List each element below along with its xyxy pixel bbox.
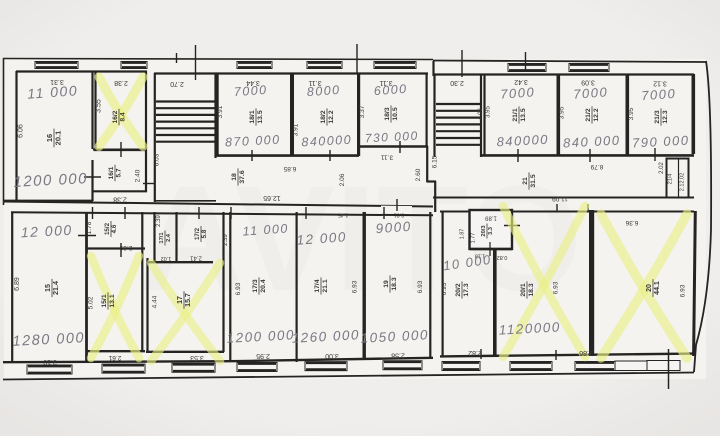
svg-text:3.55: 3.55 xyxy=(96,99,103,113)
svg-text:3.3: 3.3 xyxy=(488,226,494,235)
svg-text:4.06: 4.06 xyxy=(478,108,484,120)
svg-text:4.44: 4.44 xyxy=(152,295,159,308)
svg-text:20.1: 20.1 xyxy=(54,131,63,146)
svg-text:18/2: 18/2 xyxy=(320,110,327,123)
svg-text:6.89: 6.89 xyxy=(14,277,21,291)
svg-text:10.5: 10.5 xyxy=(392,107,399,120)
svg-text:21.1: 21.1 xyxy=(322,279,329,292)
svg-text:840 000: 840 000 xyxy=(563,133,621,151)
svg-text:9000: 9000 xyxy=(375,219,412,236)
svg-text:18.3: 18.3 xyxy=(391,277,398,290)
svg-text:6.36: 6.36 xyxy=(625,219,638,226)
svg-text:1.78: 1.78 xyxy=(86,221,93,234)
svg-text:44.1: 44.1 xyxy=(654,281,661,295)
svg-text:3.91: 3.91 xyxy=(217,105,224,118)
svg-text:12.2: 12.2 xyxy=(328,110,335,123)
svg-text:3.91: 3.91 xyxy=(293,123,300,136)
svg-text:6000: 6000 xyxy=(373,82,408,98)
svg-text:6.93: 6.93 xyxy=(680,284,687,297)
svg-text:6.15: 6.15 xyxy=(432,155,439,168)
svg-text:2.60: 2.60 xyxy=(415,168,422,181)
svg-text:5.7: 5.7 xyxy=(116,168,123,177)
svg-text:15/2: 15/2 xyxy=(104,222,111,235)
svg-text:1.89: 1.89 xyxy=(485,215,497,221)
svg-text:6.03: 6.03 xyxy=(154,153,161,166)
svg-text:3.12: 3.12 xyxy=(653,80,667,87)
svg-text:3.95: 3.95 xyxy=(486,106,492,118)
svg-text:13.5: 13.5 xyxy=(520,108,527,121)
svg-text:18/3: 18/3 xyxy=(384,107,391,120)
svg-text:2.70: 2.70 xyxy=(170,80,184,87)
svg-text:7000: 7000 xyxy=(641,86,677,103)
svg-text:2.58: 2.58 xyxy=(391,352,405,359)
svg-text:2.61: 2.61 xyxy=(108,354,121,361)
svg-text:6.93: 6.93 xyxy=(553,281,560,294)
svg-text:6.85: 6.85 xyxy=(283,165,296,172)
svg-text:2.30: 2.30 xyxy=(450,79,464,86)
svg-text:6.93: 6.93 xyxy=(235,282,242,295)
svg-text:16/1: 16/1 xyxy=(108,166,115,179)
svg-text:1.45: 1.45 xyxy=(338,212,349,218)
svg-text:31.5: 31.5 xyxy=(530,174,537,187)
svg-text:2.40: 2.40 xyxy=(135,169,142,182)
svg-text:17/3: 17/3 xyxy=(252,279,259,292)
svg-text:5.02: 5.02 xyxy=(88,296,95,309)
svg-text:17.3: 17.3 xyxy=(463,283,470,296)
svg-text:2.95: 2.95 xyxy=(256,352,270,359)
svg-text:12.3: 12.3 xyxy=(662,110,669,123)
svg-text:1.77: 1.77 xyxy=(471,233,477,244)
svg-text:2.39: 2.39 xyxy=(223,234,229,246)
svg-text:21.4: 21.4 xyxy=(51,281,60,295)
svg-text:2.41: 2.41 xyxy=(190,255,202,261)
svg-text:840000: 840000 xyxy=(496,132,549,150)
svg-text:870 000: 870 000 xyxy=(225,133,281,150)
svg-text:730 000: 730 000 xyxy=(365,129,420,146)
svg-text:0.82: 0.82 xyxy=(497,254,508,260)
svg-text:6.06: 6.06 xyxy=(18,124,25,138)
svg-text:20: 20 xyxy=(646,284,653,292)
svg-text:8.79: 8.79 xyxy=(590,163,603,170)
svg-text:6.93: 6.93 xyxy=(441,282,448,295)
svg-text:12.2: 12.2 xyxy=(593,108,600,121)
svg-text:21/4: 21/4 xyxy=(668,174,674,185)
svg-text:13.5: 13.5 xyxy=(257,110,264,123)
svg-text:12.65: 12.65 xyxy=(263,194,281,201)
svg-text:2.38: 2.38 xyxy=(114,79,128,86)
svg-text:2.06: 2.06 xyxy=(339,173,346,186)
svg-text:18.3: 18.3 xyxy=(528,283,535,296)
svg-text:840000: 840000 xyxy=(301,133,352,150)
svg-text:21: 21 xyxy=(522,177,529,185)
svg-text:2.86: 2.86 xyxy=(579,349,593,356)
svg-text:18: 18 xyxy=(231,173,238,181)
svg-text:4.6: 4.6 xyxy=(111,224,118,233)
svg-text:1.87: 1.87 xyxy=(460,229,466,240)
svg-text:15.7: 15.7 xyxy=(185,293,192,307)
svg-text:3.10: 3.10 xyxy=(43,358,57,365)
svg-text:17/2: 17/2 xyxy=(194,227,201,240)
svg-text:3.37: 3.37 xyxy=(359,105,366,118)
svg-text:2.82: 2.82 xyxy=(468,349,482,356)
svg-text:12 000: 12 000 xyxy=(20,222,73,241)
svg-text:6.93: 6.93 xyxy=(352,280,359,293)
svg-text:11.09: 11.09 xyxy=(552,195,568,202)
svg-text:2.39: 2.39 xyxy=(156,215,162,227)
svg-text:21/2: 21/2 xyxy=(585,108,592,121)
svg-text:19: 19 xyxy=(383,280,390,288)
svg-text:16/2: 16/2 xyxy=(112,110,119,123)
svg-text:2.4: 2.4 xyxy=(166,233,172,242)
svg-text:3.53: 3.53 xyxy=(190,354,204,361)
svg-text:7000: 7000 xyxy=(233,83,268,99)
svg-text:3.95: 3.95 xyxy=(559,106,566,119)
svg-text:790 000: 790 000 xyxy=(632,133,690,151)
svg-text:17: 17 xyxy=(177,296,184,304)
svg-text:8000: 8000 xyxy=(306,83,341,99)
svg-text:8.4: 8.4 xyxy=(120,112,127,121)
svg-text:2.12.02: 2.12.02 xyxy=(680,173,686,191)
svg-text:20/3: 20/3 xyxy=(481,225,487,237)
svg-text:5.8: 5.8 xyxy=(201,229,208,238)
svg-text:3.95: 3.95 xyxy=(628,107,635,120)
svg-text:21/1: 21/1 xyxy=(512,108,519,121)
svg-text:17/1: 17/1 xyxy=(159,232,165,244)
svg-text:0.81: 0.81 xyxy=(394,212,405,218)
svg-text:20/2: 20/2 xyxy=(455,283,462,296)
svg-text:3.11: 3.11 xyxy=(381,154,394,161)
svg-text:15/1: 15/1 xyxy=(101,294,108,307)
svg-text:2.02: 2.02 xyxy=(659,162,665,174)
svg-text:13.1: 13.1 xyxy=(109,294,116,307)
svg-text:7000: 7000 xyxy=(500,84,536,101)
svg-text:20.4: 20.4 xyxy=(260,279,267,292)
svg-text:3.00: 3.00 xyxy=(325,352,339,359)
svg-text:20/1: 20/1 xyxy=(520,283,527,296)
svg-text:37.6: 37.6 xyxy=(239,170,246,183)
svg-text:6.93: 6.93 xyxy=(417,280,424,293)
svg-text:18/1: 18/1 xyxy=(249,110,256,123)
svg-text:17/4: 17/4 xyxy=(314,279,321,292)
svg-text:1.02: 1.02 xyxy=(161,255,172,261)
svg-text:2.38: 2.38 xyxy=(113,196,127,203)
svg-text:21/3: 21/3 xyxy=(654,110,661,123)
svg-text:7000: 7000 xyxy=(573,84,609,101)
